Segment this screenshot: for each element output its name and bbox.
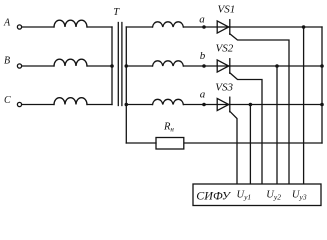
primary winding C: [54, 98, 87, 105]
wire primary coil A to star bus: [87, 26, 112, 28]
svg-text:A: A: [3, 18, 11, 29]
svg-text:b: b: [200, 50, 206, 62]
svg-text:VS3: VS3: [215, 82, 233, 94]
terminal A: [17, 25, 21, 29]
wire secondary bus to coil a: [126, 26, 152, 28]
junction secondary bus row b: [125, 64, 129, 68]
svg-text:VS1: VS1: [218, 4, 236, 16]
wire secondary bus to coil c: [126, 104, 152, 106]
svg-text:СИФУ: СИФУ: [196, 189, 231, 203]
wire B terminal to primary coil: [22, 65, 54, 67]
SIFU control block: [193, 184, 321, 206]
wire VS1 cathode sense down to SIFU: [303, 27, 305, 184]
node c junction dot: [202, 103, 206, 107]
junction secondary bus row c: [125, 103, 129, 107]
wire VS2 gate: [230, 73, 262, 184]
wire secondary bus to coil b: [126, 65, 152, 67]
load resistor Rn: [156, 138, 184, 150]
wire VS1 cathode to right bus: [230, 26, 322, 28]
secondary neutral bus: [125, 27, 127, 143]
wire VS3 cathode to right bus: [230, 104, 322, 106]
junction VS1 cathode tap: [302, 25, 306, 29]
junction VS3 cathode tap: [249, 103, 253, 107]
thyristor VS2 triangle: [217, 60, 229, 72]
svg-text:a: a: [199, 14, 205, 26]
thyristor VS1 cathode bar: [229, 20, 231, 35]
svg-text:VS2: VS2: [216, 43, 234, 55]
junction VS3 right bus: [320, 103, 324, 107]
wire secondary coil b to node b: [183, 65, 229, 67]
wire load to secondary bus: [126, 142, 156, 144]
secondary winding c: [153, 99, 184, 104]
svg-text:C: C: [4, 95, 11, 106]
terminal B: [17, 64, 21, 68]
terminal C: [17, 102, 21, 106]
transformer core line 2: [121, 23, 123, 106]
transformer core line 1: [117, 23, 119, 106]
wire C terminal to primary coil: [22, 104, 54, 106]
primary winding A: [54, 20, 87, 27]
wire secondary coil c to node c: [183, 104, 229, 106]
primary winding B: [54, 59, 87, 66]
thyristor VS1 triangle: [217, 21, 229, 33]
thyristor VS2 cathode bar: [229, 59, 231, 74]
node a junction dot: [202, 25, 206, 29]
wire right bus to load: [184, 142, 322, 144]
thyristor VS3 triangle: [217, 98, 229, 110]
svg-text:a: a: [200, 88, 206, 100]
primary star bus: [111, 27, 113, 105]
node b junction dot: [202, 64, 206, 68]
wire A terminal to primary coil: [22, 26, 54, 28]
junction VS2 cathode tap: [275, 64, 279, 68]
junction VS2 right bus: [320, 64, 324, 68]
wire secondary coil a to node a: [183, 26, 229, 28]
thyristor VS3 cathode bar: [229, 97, 231, 112]
wire VS3 cathode sense down to SIFU: [249, 105, 251, 185]
wire VS1 gate: [230, 34, 289, 184]
wire VS2 cathode to right bus: [230, 65, 322, 67]
secondary winding b: [153, 61, 184, 66]
wire primary coil B to star bus: [87, 65, 112, 67]
wire VS3 gate: [230, 111, 237, 184]
wire VS2 cathode sense down to SIFU: [276, 66, 278, 184]
wire primary coil C to star bus: [87, 104, 112, 106]
svg-text:B: B: [4, 56, 10, 67]
junction primary star point: [110, 64, 114, 68]
secondary winding a: [153, 22, 184, 27]
cathode right bus: [321, 27, 323, 143]
